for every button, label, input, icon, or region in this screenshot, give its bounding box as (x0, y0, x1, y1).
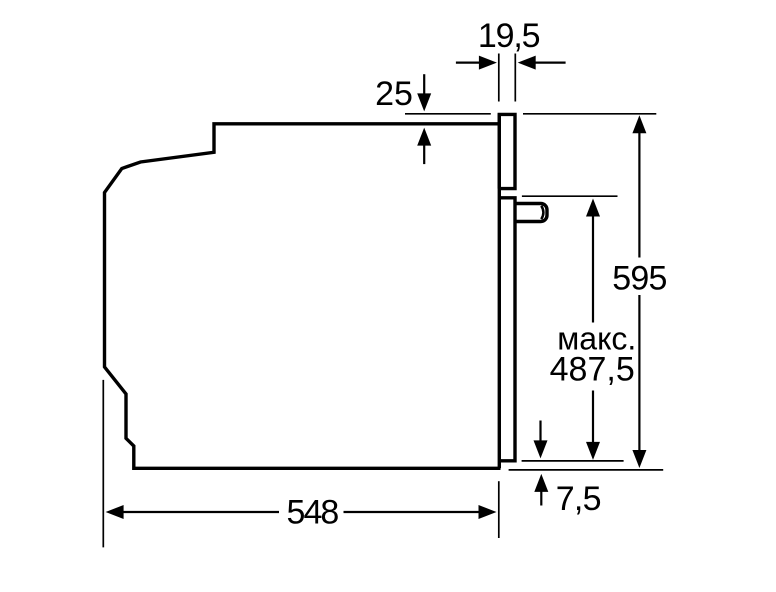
dimension макс. 487,5 text (550, 320, 637, 388)
dimension 19,5 left extension line (498, 54, 500, 102)
dimension 595 line with arrows (632, 115, 646, 468)
dimension 548 line with arrows (106, 505, 497, 519)
svg-text:595: 595 (612, 259, 666, 297)
dimension 548 left extension line (102, 380, 104, 548)
dimension 25 down arrow (417, 74, 431, 111)
svg-text:548: 548 (287, 493, 339, 531)
svg-text:487,5: 487,5 (550, 350, 635, 388)
svg-text:19,5: 19,5 (478, 17, 540, 55)
oven body outline (105, 124, 501, 469)
dimension 25 up arrow (417, 128, 431, 165)
dimension 25 extension line (door top, left of door) (405, 113, 491, 115)
oven body right edge / door hinge line (498, 113, 501, 468)
dimension 7,5 down arrow (534, 421, 548, 459)
dimension 595 text (612, 259, 666, 297)
dimension 7,5 up arrow (534, 474, 548, 506)
dimension 7,5 text (556, 480, 601, 518)
dimension 19,5 right extension line (514, 54, 516, 102)
svg-text:7,5: 7,5 (556, 480, 601, 518)
dimension 19,5 left arrow (456, 56, 497, 70)
dimension 595 top extension line (door top, right of door) (523, 113, 656, 115)
door upper panel (499, 114, 515, 188)
door lower panel (499, 198, 515, 461)
dimension 25 text (375, 75, 413, 113)
dimension 19,5 text (478, 17, 540, 55)
dimension 487,5 top extension line (522, 195, 618, 197)
dimension 19,5 right arrow (518, 56, 566, 70)
svg-text:25: 25 (375, 75, 413, 113)
dimension 548 text (287, 493, 339, 531)
dimension 487,5 line with arrows (586, 199, 600, 460)
dimension 7,5 upper extension line (door bottom) (522, 460, 624, 462)
door handle (515, 204, 547, 222)
dimension 548 right extension line (498, 481, 500, 538)
dimension 7,5 lower extension line (body bottom) (509, 469, 664, 471)
